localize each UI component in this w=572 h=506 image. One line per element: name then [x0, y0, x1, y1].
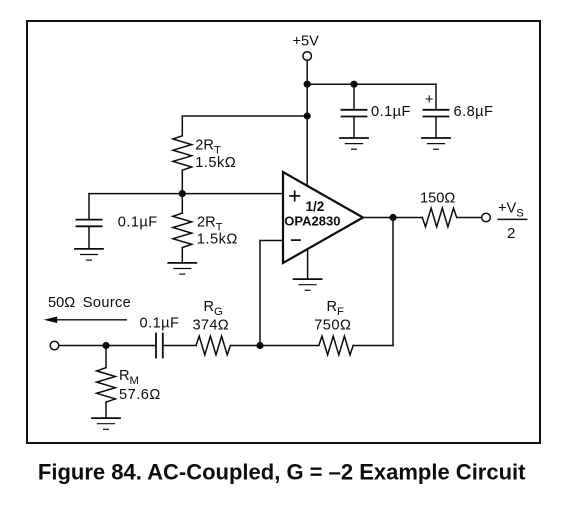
svg-text:0.1µF: 0.1µF	[371, 104, 411, 120]
ground under C3	[75, 249, 103, 260]
svg-text:2: 2	[507, 225, 515, 242]
svg-text:OPA2830: OPA2830	[284, 214, 340, 229]
resistor R3 150ohm	[422, 208, 456, 227]
node J1 (supply rail)	[304, 81, 311, 88]
wire -input	[260, 240, 283, 242]
node J6 (RG/RF junction)	[256, 342, 263, 349]
op-amp minus input marker	[291, 239, 301, 241]
wire RT1 bottom to +input node	[181, 170, 183, 193]
+5V terminal circle	[303, 52, 312, 61]
svg-text:1/2: 1/2	[306, 199, 325, 214]
resistor R1 2RT 1.5k (upper)	[173, 136, 192, 170]
svg-text:6.8µF: 6.8µF	[454, 104, 494, 120]
wire +5V down to op-amp top	[306, 60, 308, 186]
wire op-amp bottom power to ground	[307, 250, 309, 280]
resistor R5 RG 374ohm	[196, 336, 230, 355]
capacitor C2 6.8uF (supply)	[424, 84, 449, 138]
capacitor C3 0.1uF (left)	[77, 194, 102, 249]
ground under C2	[422, 138, 450, 149]
ground under R2	[168, 263, 196, 274]
wire 150ohm to output terminal	[457, 217, 482, 219]
wire +input rail	[89, 193, 283, 195]
wire -input feedback vertical	[259, 241, 261, 346]
wire cap C4 to RG	[163, 345, 196, 347]
wire input to cap C4	[59, 345, 156, 347]
output terminal circle	[482, 213, 491, 222]
svg-text:+: +	[425, 92, 434, 108]
wire supply rail horizontal	[307, 83, 436, 85]
resistor R2 2RT 1.5k (lower)	[173, 194, 192, 263]
capacitor C1 0.1uF (supply)	[342, 84, 367, 138]
ground under RM	[92, 418, 120, 429]
svg-text:1.5kΩ: 1.5kΩ	[197, 232, 238, 248]
resistor R4 RF 750ohm	[319, 336, 353, 355]
svg-text:750Ω: 750Ω	[314, 318, 351, 334]
input terminal circle	[50, 341, 59, 350]
svg-text:Figure 84. AC-Coupled, G = –2: Figure 84. AC-Coupled, G = –2 Example Ci…	[38, 460, 526, 485]
capacitor C4 0.1uF (input, series)	[156, 334, 163, 358]
wire RG to node J6	[230, 345, 260, 347]
svg-text:1.5kΩ: 1.5kΩ	[195, 155, 236, 171]
wire feedback bottom horizontal right part	[353, 345, 393, 347]
svg-text:+5V: +5V	[293, 34, 320, 50]
svg-text:0.1µF: 0.1µF	[118, 215, 158, 231]
op-amp U1 triangle	[283, 172, 363, 263]
ground under op-amp	[294, 279, 322, 290]
svg-text:374Ω: 374Ω	[193, 318, 229, 334]
svg-text:150Ω: 150Ω	[420, 191, 455, 207]
ground under C1	[340, 138, 368, 149]
wire RF to RG node	[260, 345, 318, 347]
svg-text:0.1µF: 0.1µF	[140, 315, 180, 331]
wire op-amp output	[363, 217, 422, 219]
arrow 50ohm source direction	[44, 317, 127, 324]
wire feedback down from output node	[392, 218, 394, 346]
fraction bar +VS/2	[498, 218, 527, 220]
node J3 (supply to RT1)	[304, 112, 311, 119]
node J2 (0.1uF branch)	[350, 81, 357, 88]
svg-text:50ΩSource: 50ΩSource	[48, 295, 131, 311]
wire top of RT1 to supply	[182, 116, 307, 136]
op-amp plus input marker	[289, 190, 300, 201]
node J7 (RM junction)	[102, 342, 109, 349]
node J5 (output)	[389, 214, 396, 221]
resistor R6 RM 57.6ohm	[97, 346, 116, 419]
node J4 (+input / RT junction)	[179, 190, 186, 197]
svg-text:57.6Ω: 57.6Ω	[119, 387, 161, 403]
